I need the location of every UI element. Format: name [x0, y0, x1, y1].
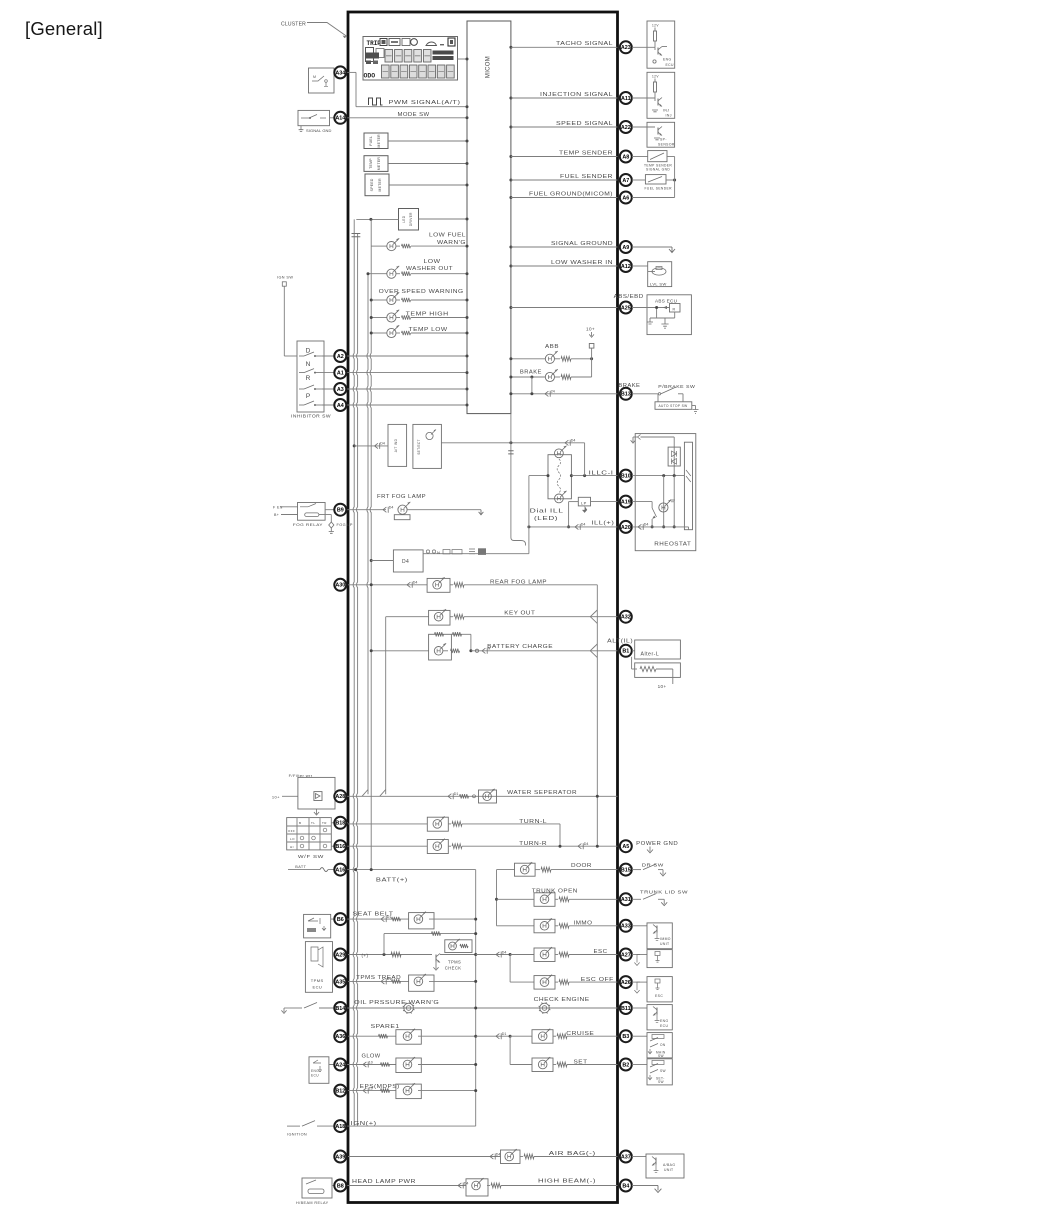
- svg-text:LOW: LOW: [424, 259, 442, 265]
- svg-text:SW: SW: [660, 1069, 666, 1073]
- svg-text:A/BAG: A/BAG: [663, 1163, 675, 1167]
- wire PWM signal path: [348, 72, 469, 108]
- svg-text:D4: D4: [413, 581, 418, 585]
- svg-text:TR: TR: [322, 821, 327, 825]
- external W/F SW box: [287, 818, 348, 859]
- svg-text:EPS(MDPS): EPS(MDPS): [360, 1084, 400, 1090]
- svg-text:HI: HI: [290, 845, 294, 849]
- svg-text:SPEED SIGNAL: SPEED SIGNAL: [556, 121, 613, 127]
- wires inhibitor into MICOM: [348, 355, 469, 407]
- lamp CRUISE circuit: [510, 1029, 617, 1065]
- external F/Filter warning box: [272, 773, 348, 815]
- svg-text:A6: A6: [622, 195, 629, 201]
- ground signal-ground arrow at A9: [632, 247, 675, 253]
- wire FRT FOG LAMP circuit: [348, 506, 393, 513]
- svg-text:INJ: INJ: [666, 114, 672, 118]
- lamp SET circuit: [510, 1057, 617, 1072]
- svg-text:A27: A27: [621, 952, 631, 958]
- lamp TRUNK OPEN circuit: [495, 892, 618, 907]
- pin A25: [620, 302, 632, 314]
- svg-text:A32: A32: [621, 615, 631, 621]
- svg-text:D4: D4: [581, 523, 586, 527]
- svg-text:SW: SW: [658, 1054, 664, 1058]
- lamp SPARE1 circuit: [348, 1029, 512, 1045]
- svg-text:ECU: ECU: [660, 1024, 669, 1028]
- svg-text:B2: B2: [622, 1062, 629, 1068]
- pin A19: [620, 496, 632, 508]
- svg-text:LED: LED: [402, 215, 406, 222]
- svg-text:A36: A36: [335, 1034, 345, 1040]
- PWM waveform glyph: [369, 98, 383, 105]
- lamp TEMP HIGH: [370, 310, 469, 322]
- lamp OVER SPEED: [370, 292, 469, 304]
- svg-text:SPARE1: SPARE1: [371, 1024, 400, 1030]
- wire bus V1 to indicator box U3: [353, 442, 388, 449]
- svg-text:A34: A34: [335, 70, 345, 76]
- svg-text:ABS/EBD: ABS/EBD: [614, 294, 644, 300]
- svg-text:UNIT: UNIT: [660, 942, 670, 946]
- switch SW2 mode switch box: [298, 110, 330, 125]
- pin A4: [334, 399, 346, 411]
- lamp AIR BAG circuit: [348, 1149, 618, 1164]
- svg-text:A31: A31: [621, 897, 631, 903]
- svg-text:CHECK: CHECK: [445, 966, 462, 971]
- wires inhibitor D/N/R/P to pins: [322, 356, 348, 405]
- inline connector bars on V1 V2: [352, 234, 361, 237]
- svg-text:DRIVER: DRIVER: [409, 212, 413, 226]
- svg-text:A14: A14: [335, 116, 345, 122]
- svg-text:ENG: ENG: [663, 58, 672, 62]
- svg-text:B14: B14: [335, 1006, 345, 1012]
- svg-text:A37: A37: [621, 1154, 631, 1160]
- svg-text:TEMP LOW: TEMP LOW: [409, 327, 449, 333]
- svg-text:FUEL: FUEL: [369, 136, 373, 146]
- pin A22: [620, 121, 632, 133]
- switch DR SW external: [632, 862, 666, 876]
- svg-text:N: N: [437, 550, 440, 555]
- svg-text:A35: A35: [335, 979, 345, 985]
- svg-text:A18: A18: [335, 1124, 345, 1130]
- wire BATT(+) to feed bus: [348, 868, 476, 1126]
- svg-text:10: 10: [369, 1086, 373, 1090]
- svg-text:OIL PRSSURE WARN'G: OIL PRSSURE WARN'G: [354, 1000, 439, 1006]
- svg-text:IMMO: IMMO: [660, 937, 671, 941]
- svg-text:B10: B10: [621, 474, 631, 480]
- svg-text:A16: A16: [335, 868, 345, 874]
- ground at B4: [632, 1186, 661, 1193]
- wire TACHO SIGNAL from MICOM to pin A23: [509, 46, 617, 49]
- label LOW FUEL WARN'G: [429, 233, 466, 246]
- lamp BATTERY CHARGE circuit: [370, 632, 618, 660]
- svg-text:METER: METER: [377, 157, 381, 171]
- svg-text:SP-: SP-: [660, 138, 667, 142]
- pin A27: [620, 949, 632, 961]
- svg-text:ENG: ENG: [660, 1019, 669, 1023]
- lamp TEMP LOW: [370, 325, 469, 337]
- svg-text:D1: D1: [387, 915, 392, 919]
- svg-text:D4: D4: [496, 1152, 501, 1156]
- svg-text:R: R: [673, 307, 676, 311]
- svg-text:SIGNAL GND: SIGNAL GND: [306, 128, 332, 133]
- external ESC module box: [632, 950, 672, 968]
- svg-text:D4: D4: [402, 559, 409, 565]
- external TPMS ECU box: [305, 942, 332, 993]
- svg-text:ESC: ESC: [655, 994, 663, 998]
- lamp EPS circuit: [348, 1083, 477, 1099]
- pin A11: [620, 92, 632, 104]
- pin B13: [620, 388, 632, 400]
- svg-text:B16: B16: [335, 844, 345, 850]
- lamp driver box U2: [399, 209, 419, 231]
- bus line V2: [357, 233, 358, 1126]
- lamp IMMO circuit: [497, 918, 618, 933]
- pin A20: [620, 521, 632, 533]
- label LOW WASHER OUT: [406, 259, 453, 272]
- bus line V4: [370, 219, 371, 869]
- svg-text:[General]: [General]: [25, 18, 103, 39]
- wire TEMP METER to MICOM: [388, 162, 469, 165]
- svg-text:TEMP: TEMP: [369, 158, 373, 169]
- lamp HIGH BEAM circuit: [348, 1178, 618, 1196]
- svg-text:A24: A24: [335, 1062, 345, 1068]
- svg-text:D4: D4: [584, 842, 589, 846]
- svg-text:A28: A28: [335, 794, 345, 800]
- svg-text:A19: A19: [621, 500, 631, 506]
- external eng ecu glow box: [309, 1057, 348, 1084]
- wire FUEL SENDER from MICOM to pin A7: [509, 179, 617, 182]
- switch INHIBITOR SW box: [291, 341, 331, 419]
- pin A8: [620, 151, 632, 163]
- svg-text:HIGH BEAM(-): HIGH BEAM(-): [538, 1178, 596, 1184]
- wire rear defog net with inline parts: [423, 548, 529, 555]
- power feed 10+ for brake lamps: [586, 327, 595, 378]
- external seat belt module box: [304, 914, 348, 938]
- label POWER GND and ground: [636, 841, 678, 853]
- wire LCD to MICOM: [458, 58, 469, 61]
- svg-text:A25: A25: [621, 305, 631, 311]
- svg-text:D4: D4: [380, 442, 385, 446]
- wire driver feed left: [356, 218, 398, 221]
- svg-text:LP: LP: [581, 500, 587, 505]
- pin B2: [620, 1059, 632, 1071]
- wire BATT feed external: [288, 865, 348, 872]
- svg-text:Dial ILL: Dial ILL: [530, 509, 564, 515]
- svg-text:METER: METER: [377, 134, 381, 148]
- svg-text:P/BRAKE SW: P/BRAKE SW: [658, 384, 695, 389]
- pin A1: [334, 367, 346, 379]
- svg-text:LOW WASHER IN: LOW WASHER IN: [551, 260, 613, 266]
- svg-text:SIGNAL GND: SIGNAL GND: [646, 168, 670, 172]
- svg-text:TACHO SIGNAL: TACHO SIGNAL: [556, 41, 613, 47]
- svg-text:FUEL GROUND(MICOM): FUEL GROUND(MICOM): [529, 191, 613, 197]
- pin A6: [620, 192, 632, 204]
- wire ignition feed to inhibitor: [277, 276, 297, 357]
- lamp GLOW circuit: [348, 1057, 477, 1073]
- svg-text:A29: A29: [335, 952, 345, 958]
- pin A28: [334, 790, 346, 802]
- pin A35: [334, 975, 346, 987]
- svg-text:A1: A1: [337, 371, 344, 377]
- wire U4 to ILL dropper: [441, 439, 584, 446]
- svg-text:A2: A2: [337, 354, 344, 360]
- svg-text:ECU: ECU: [666, 63, 675, 67]
- svg-text:ABB: ABB: [545, 344, 559, 350]
- wire ILLC-I net: [529, 443, 618, 477]
- svg-text:HEAD LAMP PWR: HEAD LAMP PWR: [352, 1179, 416, 1185]
- switch TRUNK LID SW external: [632, 890, 688, 906]
- bus line V1: [353, 219, 354, 1126]
- svg-text:MICOM: MICOM: [486, 56, 492, 78]
- svg-text:B: B: [299, 821, 301, 825]
- svg-text:A8: A8: [622, 154, 629, 160]
- lamp OIL PRESSURE gear symbol: [348, 1002, 618, 1014]
- svg-text:B6: B6: [337, 917, 344, 923]
- svg-text:D4: D4: [571, 439, 576, 443]
- wire TEMP SENDER from MICOM to pin A8: [509, 155, 617, 158]
- lamp ABB: [509, 351, 593, 363]
- svg-text:POWER GND: POWER GND: [636, 841, 678, 847]
- svg-text:B12: B12: [335, 1089, 345, 1095]
- relay FOG RELAY external: [273, 503, 353, 534]
- svg-text:B13: B13: [621, 392, 631, 398]
- lamp CHECK ENGINE gear symbol: [539, 1002, 551, 1014]
- svg-text:LO: LO: [290, 837, 295, 841]
- pin A12: [620, 260, 632, 272]
- pin B14: [334, 1002, 346, 1014]
- pin A9: [620, 241, 632, 253]
- pin A18: [334, 1120, 346, 1132]
- svg-text:INHIBITOR SW: INHIBITOR SW: [291, 414, 331, 419]
- connector box D4 (rear defog feed): [370, 550, 423, 572]
- external Alter-L box: [632, 640, 681, 689]
- svg-text:A30: A30: [335, 583, 345, 589]
- svg-text:CHECK ENGINE: CHECK ENGINE: [534, 997, 590, 1003]
- svg-text:A3: A3: [337, 387, 344, 393]
- external RHEOSTAT box: [631, 434, 696, 551]
- svg-text:(+): (+): [362, 953, 369, 958]
- svg-text:METER: METER: [378, 178, 382, 192]
- svg-text:ECU: ECU: [311, 1074, 319, 1078]
- svg-text:ECU: ECU: [313, 985, 323, 990]
- svg-text:24: 24: [551, 390, 555, 394]
- svg-text:A23: A23: [621, 45, 631, 51]
- svg-text:10+: 10+: [658, 684, 667, 689]
- svg-text:OVER SPEED WARNING: OVER SPEED WARNING: [379, 289, 464, 295]
- svg-text:SPEED: SPEED: [370, 178, 374, 191]
- svg-text:DOOR: DOOR: [571, 863, 592, 869]
- lamp SEAT BELT circuit: [348, 912, 477, 929]
- svg-text:10: 10: [369, 1060, 373, 1064]
- wire WATER SEPERATOR circuit: [348, 790, 618, 800]
- svg-text:H/BEAM RELAY: H/BEAM RELAY: [296, 1201, 329, 1205]
- lamp BRAKE: [509, 369, 591, 381]
- svg-text:BATT(+): BATT(+): [376, 878, 408, 884]
- svg-text:OFF: OFF: [288, 829, 295, 833]
- svg-text:B18: B18: [335, 821, 345, 827]
- svg-text:ILL(+): ILL(+): [591, 521, 614, 527]
- pin A30: [334, 579, 346, 591]
- svg-text:B1: B1: [622, 649, 629, 655]
- wire INJECTION SIGNAL from MICOM to pin A11: [509, 97, 617, 100]
- svg-text:A5: A5: [622, 844, 629, 850]
- svg-text:D1: D1: [454, 792, 459, 796]
- lamp TPMS TREAD circuit: [348, 974, 477, 991]
- svg-text:TEMP SENDER: TEMP SENDER: [559, 150, 613, 156]
- svg-text:A20: A20: [621, 525, 631, 531]
- pin A29: [334, 949, 346, 961]
- svg-text:AUTO STOP SW: AUTO STOP SW: [659, 404, 688, 408]
- wire SW1 to pin A34: [334, 71, 348, 73]
- wire SW2 to pin A14: [330, 117, 349, 119]
- svg-text:TEMP HIGH: TEMP HIGH: [406, 311, 449, 317]
- svg-text:ABS ECU: ABS ECU: [655, 298, 677, 303]
- svg-text:TRIP: TRIP: [367, 40, 382, 47]
- indicator box U4 with lamp: [413, 424, 442, 468]
- switch P/BRAKE SW external: [632, 384, 699, 413]
- svg-text:W/F SW: W/F SW: [298, 854, 324, 859]
- gauge FUEL METER box: [364, 133, 388, 149]
- lamp LOW FUEL: [371, 238, 468, 250]
- svg-text:(LED): (LED): [534, 516, 558, 522]
- svg-text:TRUNK LID SW: TRUNK LID SW: [640, 890, 688, 895]
- switch ignition external: [287, 1121, 348, 1137]
- pin A3: [334, 383, 346, 395]
- wire IGN(+) to feed bus: [348, 1125, 476, 1127]
- svg-text:FOG LP: FOG LP: [337, 523, 353, 527]
- pin A24: [334, 1059, 346, 1071]
- pin B12: [334, 1085, 346, 1097]
- svg-text:BRAKE: BRAKE: [520, 369, 542, 375]
- pin B10: [620, 470, 632, 482]
- pin B18: [334, 817, 346, 829]
- ground for mode switch + label SIGNAL GND: [299, 126, 332, 133]
- svg-text:D1: D1: [502, 1032, 507, 1036]
- svg-text:TPMS: TPMS: [448, 960, 461, 965]
- svg-text:12V: 12V: [652, 75, 659, 79]
- svg-text:MODE SW: MODE SW: [398, 112, 430, 118]
- svg-text:B4: B4: [622, 1183, 629, 1189]
- svg-text:GLOW: GLOW: [362, 1054, 382, 1060]
- svg-text:KEY OUT: KEY OUT: [504, 611, 535, 617]
- svg-text:FUEL SENDER: FUEL SENDER: [560, 174, 613, 180]
- svg-text:A22: A22: [621, 125, 631, 131]
- svg-text:R: R: [306, 375, 311, 382]
- pin B9: [334, 504, 346, 516]
- pin A7: [620, 174, 632, 186]
- svg-text:N: N: [488, 647, 491, 651]
- lamp WATER SEPERATOR: [479, 789, 599, 803]
- pin B6: [334, 913, 346, 925]
- svg-text:D1: D1: [387, 977, 392, 981]
- label CLUSTER with leader line: [281, 22, 347, 39]
- wire SIGNAL GROUND from MICOM to pin A9: [509, 246, 617, 249]
- svg-text:A7: A7: [622, 178, 629, 184]
- svg-text:ON: ON: [660, 1043, 666, 1047]
- bus line V3: [367, 274, 368, 795]
- svg-text:B9: B9: [337, 508, 344, 514]
- svg-text:IGNITION: IGNITION: [287, 1132, 307, 1136]
- svg-text:WARN'G: WARN'G: [437, 240, 466, 246]
- wire SPEED SIGNAL from MICOM to pin A22: [509, 126, 617, 129]
- svg-text:10+: 10+: [586, 327, 595, 332]
- svg-text:FUEL SENDER: FUEL SENDER: [645, 187, 673, 191]
- svg-text:INJ: INJ: [663, 109, 669, 113]
- svg-text:B11: B11: [621, 1006, 631, 1012]
- svg-text:B+: B+: [274, 513, 279, 517]
- svg-text:CLUSTER: CLUSTER: [281, 22, 306, 28]
- svg-text:B15: B15: [621, 868, 631, 874]
- wire BRAKE out to pin B13: [509, 377, 617, 397]
- svg-text:PWM SIGNAL(A/T): PWM SIGNAL(A/T): [389, 100, 461, 106]
- svg-text:N: N: [306, 361, 311, 368]
- wire FUEL METER to MICOM: [388, 140, 469, 143]
- pin A32: [620, 611, 632, 623]
- IC U1 MICOM box: [467, 21, 511, 414]
- lamp REAR FOG and wire to bus: [348, 577, 597, 846]
- switch SW1 (trip/reset) box: [309, 68, 335, 93]
- svg-text:P: P: [306, 393, 310, 400]
- svg-text:A4: A4: [337, 403, 344, 409]
- svg-text:A12: A12: [621, 264, 631, 270]
- svg-text:SIGNAL GROUND: SIGNAL GROUND: [551, 241, 613, 247]
- external module SP-SENSOR box: [632, 122, 675, 147]
- pin A37: [620, 1151, 632, 1163]
- pin B4: [620, 1180, 632, 1192]
- lamp ESC circuit: [509, 947, 618, 982]
- pin A23: [620, 41, 632, 53]
- pin B1: [620, 645, 632, 657]
- gauge TEMP METER box: [364, 156, 388, 172]
- svg-text:M: M: [313, 75, 316, 79]
- pin A2: [334, 350, 346, 362]
- svg-text:B8: B8: [337, 1183, 344, 1189]
- svg-text:IGN SW: IGN SW: [277, 276, 293, 280]
- svg-text:D4: D4: [502, 950, 507, 954]
- external ABS ECU box: [632, 295, 691, 335]
- wire driver to MICOM: [419, 218, 469, 221]
- diode box LP on A19 line: [569, 497, 618, 513]
- svg-text:12V: 12V: [652, 24, 659, 28]
- cluster box outline: [348, 12, 618, 1203]
- svg-text:SENSOR: SENSOR: [658, 142, 675, 146]
- svg-text:TPMS: TPMS: [311, 978, 324, 983]
- external ENG ECU box at B11: [632, 1005, 672, 1030]
- svg-text:RHEOSTAT: RHEOSTAT: [654, 542, 692, 548]
- lamp TURN-R circuit: [348, 839, 618, 854]
- lamp ESC OFF circuit: [510, 975, 617, 990]
- svg-text:FRT FOG LAMP: FRT FOG LAMP: [377, 494, 426, 500]
- indicator box U3: [388, 424, 407, 466]
- wire fuel/temp sender common to pin A6: [632, 157, 675, 198]
- svg-text:BATTERY CHARGE: BATTERY CHARGE: [487, 644, 553, 650]
- svg-text:ODO: ODO: [364, 73, 376, 80]
- wire FUEL GROUND(MICOM) from MICOM to pin A6: [509, 196, 617, 199]
- wire SPEED METER to MICOM: [389, 184, 469, 187]
- pin A36: [334, 1030, 346, 1042]
- svg-text:INJECTION SIGNAL: INJECTION SIGNAL: [540, 92, 613, 98]
- LCD display module: [363, 37, 458, 81]
- svg-text:B3: B3: [622, 1034, 629, 1040]
- wire ABS/EBD from MICOM to pin A25: [509, 306, 617, 309]
- external module TACHO / ENG ECU box: [632, 21, 675, 68]
- svg-text:WATER SEPERATOR: WATER SEPERATOR: [507, 790, 577, 796]
- pin A31: [620, 893, 632, 905]
- svg-text:WASHER OUT: WASHER OUT: [406, 266, 453, 272]
- external A/BAG UNIT box: [632, 1154, 684, 1178]
- svg-text:Alter-L: Alter-L: [641, 651, 660, 657]
- external cruise main sw box at B3: [632, 1033, 672, 1058]
- lamp KEY OUT circuit: [386, 609, 618, 794]
